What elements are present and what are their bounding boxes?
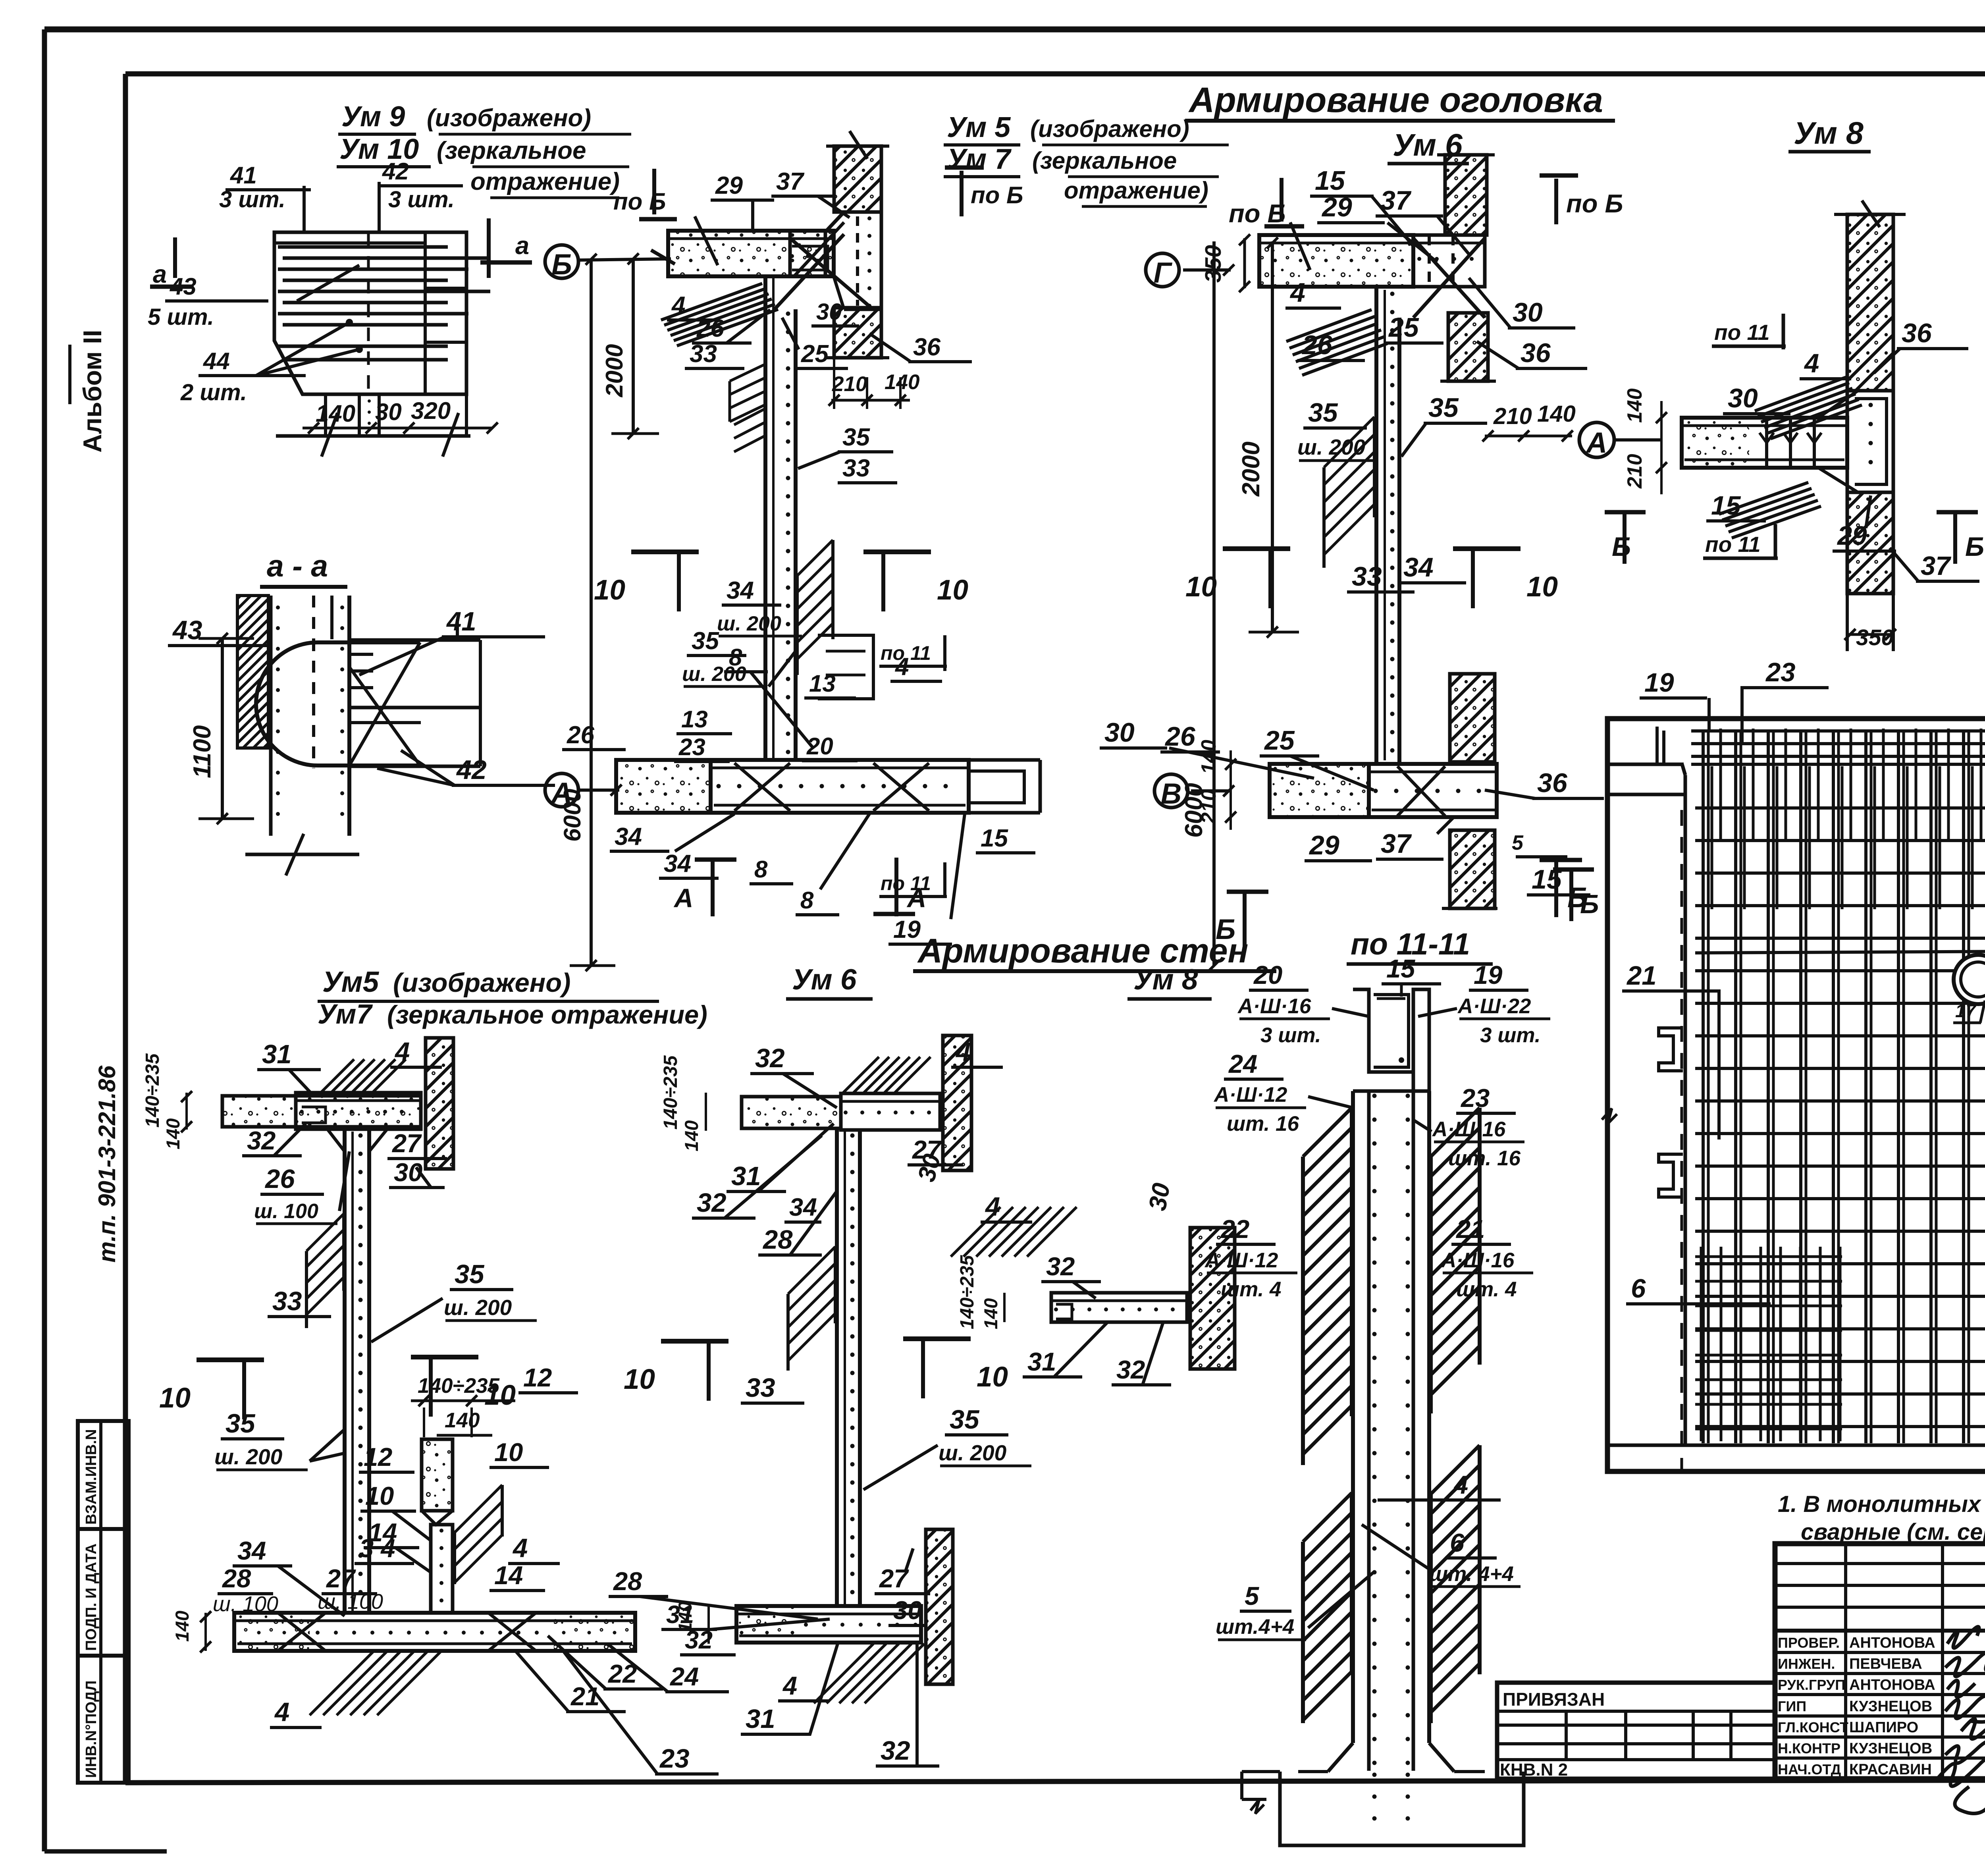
B hatched column below junction	[834, 308, 881, 358]
svg-text:4: 4	[274, 1697, 289, 1727]
privyazan block	[1497, 1683, 1775, 1779]
svg-text:37: 37	[1921, 551, 1951, 581]
axis circle A (B foot)	[545, 773, 578, 807]
svg-text:2000: 2000	[1237, 442, 1265, 497]
left margin stamp boxes	[78, 1421, 129, 1529]
po11-11 shaft	[1351, 1091, 1355, 1743]
svg-text:42: 42	[456, 755, 487, 785]
svg-text:10: 10	[594, 575, 625, 606]
svg-text:30: 30	[1104, 717, 1135, 748]
svg-text:37: 37	[1381, 829, 1412, 859]
svg-text:30: 30	[1144, 1181, 1176, 1213]
title block main outline	[1775, 1544, 1985, 1779]
svg-text:24: 24	[1228, 1049, 1257, 1078]
Um8 stub slab	[1682, 418, 1847, 468]
svg-text:4: 4	[782, 1671, 797, 1700]
svg-text:(изображено): (изображено)	[393, 968, 570, 998]
G foot slab	[1270, 764, 1369, 817]
svg-text:4: 4	[1804, 349, 1819, 378]
po11-11 top pocket	[1353, 989, 1429, 1091]
axis circle B	[545, 245, 578, 278]
svg-text:4: 4	[512, 1533, 528, 1563]
Um8 wall junction box	[1847, 391, 1893, 492]
po B mark right of B	[960, 171, 964, 216]
section marks 10 (G)	[1268, 549, 1272, 608]
svg-text:29: 29	[1321, 192, 1352, 222]
axis circle A (Um8)	[1579, 422, 1614, 457]
svg-text:140: 140	[172, 1611, 193, 1642]
svg-text:10: 10	[937, 575, 968, 606]
svg-text:Б: Б	[1965, 532, 1984, 562]
Um8 diag bundle 4	[1755, 377, 1846, 411]
svg-text:32: 32	[697, 1188, 727, 1218]
svg-text:ПРИВЯЗАН: ПРИВЯЗАН	[1503, 1689, 1605, 1710]
svg-text:210: 210	[1493, 403, 1532, 429]
svg-text:ИНВ.N°ПОДЛ: ИНВ.N°ПОДЛ	[83, 1681, 100, 1778]
svg-text:23: 23	[659, 1744, 690, 1774]
svg-text:22: 22	[1220, 1215, 1249, 1244]
svg-text:АНТОНОВА: АНТОНОВА	[1849, 1677, 1935, 1693]
svg-text:36: 36	[913, 334, 940, 361]
svg-text:140: 140	[162, 1118, 183, 1149]
svg-text:4: 4	[955, 1037, 971, 1067]
Um6 lower: slab top	[742, 1097, 841, 1128]
svg-text:26: 26	[567, 721, 594, 749]
svg-text:шт. 16: шт. 16	[1448, 1147, 1521, 1170]
svg-text:(зеркальное отражение): (зеркальное отражение)	[387, 1000, 707, 1029]
B hatch band 34	[797, 540, 833, 576]
svg-text:23: 23	[678, 734, 705, 760]
Um6 lower: hatched diag above slab	[842, 1057, 879, 1094]
svg-text:140÷235: 140÷235	[418, 1374, 500, 1398]
svg-text:ш. 200: ш. 200	[444, 1295, 512, 1320]
G hatched column above	[1445, 155, 1487, 235]
po11-11 footing	[1328, 1743, 1353, 1772]
svg-text:28: 28	[222, 1564, 251, 1593]
svg-text:3 4: 3 4	[359, 1534, 395, 1563]
svg-text:25: 25	[1388, 312, 1419, 343]
svg-text:А·Ш·16: А·Ш·16	[1432, 1118, 1506, 1141]
dim 6000 (G)	[1212, 241, 1216, 966]
svg-text:31: 31	[746, 1704, 775, 1734]
svg-text:3 шт.: 3 шт.	[388, 187, 455, 212]
svg-text:1. В монолитных участках Ум: 1. В монолитных участках Ум 9 и Ум 10 вс…	[1778, 1491, 1985, 1517]
section B marks (Um8)	[1623, 510, 1627, 564]
svg-text:5 шт.: 5 шт.	[148, 304, 214, 330]
svg-text:32: 32	[247, 1126, 276, 1155]
svg-text:19: 19	[893, 916, 921, 943]
svg-text:24: 24	[669, 1662, 699, 1691]
svg-text:ИНЖЕН.: ИНЖЕН.	[1778, 1656, 1835, 1672]
svg-text:А·Ш·16: А·Ш·16	[1440, 1249, 1515, 1272]
G X junction	[1413, 238, 1485, 318]
B X junction cross	[790, 238, 873, 310]
svg-text:по 11: по 11	[1705, 532, 1761, 557]
svg-text:отражение): отражение)	[470, 168, 620, 195]
svg-text:20: 20	[1253, 960, 1282, 989]
svg-text:15: 15	[1315, 166, 1345, 196]
svg-text:37: 37	[776, 168, 804, 195]
svg-text:Альбом II: Альбом II	[78, 330, 107, 453]
svg-text:по Б: по Б	[1566, 189, 1623, 218]
svg-text:13: 13	[681, 706, 708, 733]
svg-text:8: 8	[729, 644, 742, 671]
svg-text:Б: Б	[1612, 532, 1631, 562]
svg-text:Армирование стен: Армирование стен	[917, 932, 1249, 970]
svg-text:10: 10	[1185, 571, 1217, 603]
svg-text:10: 10	[977, 1361, 1008, 1393]
svg-text:АНТОНОВА: АНТОНОВА	[1849, 1635, 1935, 1651]
svg-text:21: 21	[1455, 1215, 1485, 1244]
svg-text:ГИП: ГИП	[1778, 1698, 1806, 1714]
Um6 lower: hatch band 33	[788, 1247, 835, 1294]
svg-text:Ум 9: Ум 9	[341, 101, 405, 133]
svg-text:5: 5	[1245, 1581, 1259, 1610]
svg-text:шт. 16: шт. 16	[1227, 1112, 1299, 1136]
svg-text:ш. 200: ш. 200	[214, 1444, 283, 1469]
svg-text:19: 19	[1644, 668, 1674, 698]
Um5 lower: wall stem	[343, 1130, 347, 1613]
svg-text:А: А	[673, 883, 693, 913]
svg-text:27: 27	[326, 1564, 356, 1593]
svg-text:по 11: по 11	[881, 642, 931, 664]
svg-text:31: 31	[731, 1161, 761, 1191]
svg-text:34: 34	[727, 577, 754, 604]
svg-text:ш. 200: ш. 200	[717, 612, 781, 635]
svg-text:4: 4	[394, 1037, 410, 1067]
svg-text:6: 6	[1450, 1528, 1465, 1557]
svg-text:10: 10	[624, 1364, 655, 1395]
svg-text:А: А	[551, 777, 572, 809]
svg-text:33: 33	[690, 340, 717, 368]
svg-text:140: 140	[1537, 401, 1576, 427]
svg-text:43: 43	[170, 273, 197, 300]
B junction box	[844, 212, 881, 309]
svg-text:отражение): отражение)	[1064, 177, 1208, 204]
svg-text:32: 32	[881, 1736, 910, 1766]
svg-text:А: А	[906, 883, 926, 913]
svg-text:34: 34	[615, 823, 642, 850]
dim 2000 (B)	[632, 259, 635, 434]
svg-text:35: 35	[842, 424, 870, 451]
Um5 lower: hatch band 33	[306, 1214, 344, 1251]
svg-text:140: 140	[885, 370, 919, 394]
svg-text:12: 12	[364, 1442, 392, 1471]
svg-text:А·Ш·16: А·Ш·16	[1237, 995, 1311, 1018]
svg-text:(зеркальное: (зеркальное	[1032, 147, 1177, 174]
svg-text:a - a: a - a	[267, 549, 328, 583]
axis circle V (G foot)	[1154, 774, 1188, 808]
svg-text:ПЕВЧЕВА: ПЕВЧЕВА	[1849, 1656, 1922, 1672]
svg-text:15: 15	[981, 825, 1008, 852]
G foot hatched column above	[1450, 674, 1495, 762]
svg-text:ш. 100: ш. 100	[213, 1592, 278, 1616]
svg-text:по Б: по Б	[613, 188, 666, 215]
svg-text:34: 34	[789, 1193, 817, 1221]
svg-text:15: 15	[1711, 491, 1741, 521]
section A marks below foot	[711, 858, 715, 916]
svg-text:Ум 8: Ум 8	[1133, 964, 1198, 996]
svg-text:26: 26	[264, 1164, 295, 1194]
svg-text:А: А	[1586, 427, 1607, 459]
svg-text:30: 30	[1728, 383, 1758, 413]
Um8 diag bundle lower	[1719, 482, 1808, 514]
Um8 lower: diag bundle 4	[951, 1207, 1000, 1257]
svg-text:6: 6	[1631, 1274, 1646, 1303]
A-A side brackets	[1659, 1028, 1683, 1071]
svg-text:Ум5: Ум5	[322, 966, 380, 998]
svg-text:Б: Б	[1580, 889, 1599, 919]
svg-text:35: 35	[1428, 393, 1459, 423]
svg-text:КРАСАВИН: КРАСАВИН	[1849, 1761, 1932, 1778]
section B marks at G foot	[1243, 890, 1247, 949]
svg-text:шт.4+4: шт.4+4	[1216, 1615, 1294, 1639]
svg-text:ШАПИРО: ШАПИРО	[1849, 1719, 1918, 1736]
G top slab	[1259, 235, 1413, 287]
Um5 lower: slab	[222, 1096, 421, 1127]
svg-text:Армирование оголовка: Армирование оголовка	[1188, 80, 1603, 120]
svg-text:23: 23	[1460, 1084, 1490, 1112]
svg-text:41: 41	[230, 162, 257, 189]
svg-text:сварные (см. серию 3.900-3 .: сварные (см. серию 3.900-3 . вып. 2182 .…	[1801, 1519, 1985, 1545]
svg-text:Н.КОНТР: Н.КОНТР	[1778, 1740, 1840, 1756]
G diagonal bundle 4	[1286, 310, 1372, 341]
title block left column block	[1775, 1562, 1985, 1565]
Um8 vertical wall lower hatched	[1847, 492, 1893, 594]
svg-text:33: 33	[746, 1373, 775, 1403]
svg-text:1100: 1100	[189, 725, 216, 778]
svg-text:140: 140	[1623, 388, 1646, 423]
svg-text:25: 25	[801, 340, 829, 368]
svg-text:Б: Б	[551, 249, 572, 281]
svg-text:35: 35	[692, 627, 719, 655]
svg-text:КУЗНЕЦОВ: КУЗНЕЦОВ	[1849, 1740, 1932, 1757]
svg-text:8: 8	[754, 856, 768, 883]
svg-text:33: 33	[272, 1286, 302, 1316]
svg-text:4: 4	[1289, 278, 1305, 308]
svg-text:Ум 7: Ум 7	[947, 143, 1012, 175]
svg-text:42: 42	[382, 158, 409, 185]
svg-text:А·Ш·12: А·Ш·12	[1204, 1249, 1278, 1272]
svg-text:Ум 6: Ум 6	[792, 964, 857, 996]
svg-text:31: 31	[1027, 1347, 1056, 1376]
B-B pointer at plan left	[1569, 868, 1573, 921]
svg-text:28: 28	[613, 1567, 642, 1596]
svg-text:по Б: по Б	[1229, 199, 1286, 228]
svg-text:12: 12	[523, 1363, 552, 1392]
svg-text:Ум 5: Ум 5	[947, 112, 1011, 143]
svg-text:140÷235: 140÷235	[142, 1053, 163, 1128]
axis circle G	[1146, 253, 1179, 287]
svg-text:ВЗАМ.ИНВ.N: ВЗАМ.ИНВ.N	[83, 1429, 100, 1525]
Um6 lower section marks 10	[707, 1341, 711, 1401]
svg-text:26: 26	[1301, 330, 1333, 360]
svg-text:5: 5	[1512, 831, 1524, 854]
G foot hatched column below	[1450, 830, 1495, 908]
svg-text:30: 30	[816, 299, 842, 325]
svg-text:А·Ш·22: А·Ш·22	[1457, 995, 1531, 1018]
svg-text:Ум 8: Ум 8	[1794, 115, 1864, 150]
svg-text:10: 10	[365, 1481, 394, 1510]
svg-text:Ум7: Ум7	[318, 999, 373, 1030]
svg-text:А·Ш·12: А·Ш·12	[1213, 1083, 1287, 1107]
B hatched column above	[834, 146, 881, 212]
svg-text:В: В	[1161, 778, 1182, 810]
svg-text:26: 26	[696, 315, 724, 342]
svg-text:шт. 4: шт. 4	[1221, 1278, 1281, 1301]
svg-text:(изображено): (изображено)	[1030, 116, 1189, 142]
svg-text:31: 31	[666, 1601, 694, 1629]
svg-text:23: 23	[1765, 657, 1796, 687]
svg-text:26: 26	[1164, 721, 1196, 752]
svg-text:3 шт.: 3 шт.	[1480, 1024, 1540, 1047]
svg-text:т.п. 901-3-221.86: т.п. 901-3-221.86	[94, 1065, 120, 1263]
svg-text:41: 41	[446, 607, 476, 636]
svg-text:31: 31	[262, 1039, 292, 1069]
svg-text:ш. 200: ш. 200	[939, 1440, 1007, 1465]
svg-text:30: 30	[375, 399, 402, 425]
G hatched column below junction	[1448, 313, 1488, 381]
svg-text:4: 4	[985, 1192, 1000, 1222]
svg-text:15: 15	[1386, 954, 1415, 983]
svg-text:29: 29	[1309, 830, 1339, 860]
A-A plan grid	[1702, 731, 1705, 1443]
svg-text:210: 210	[832, 372, 867, 396]
Um8 X + diagonals	[1818, 391, 1858, 418]
svg-text:33: 33	[842, 455, 870, 482]
svg-text:140: 140	[681, 1120, 702, 1151]
svg-text:10: 10	[1526, 571, 1558, 603]
svg-text:320: 320	[411, 397, 451, 424]
inner drawing frame	[125, 71, 1985, 77]
svg-text:210: 210	[1197, 789, 1220, 824]
svg-text:ПРОВЕР.: ПРОВЕР.	[1778, 1635, 1840, 1651]
svg-text:a: a	[153, 260, 167, 288]
svg-text:РУК.ГРУП: РУК.ГРУП	[1778, 1677, 1845, 1693]
svg-text:29: 29	[1837, 521, 1867, 551]
Um8 lower: precast wall right	[1190, 1228, 1235, 1369]
pipe circles 17/18	[1954, 955, 1985, 1004]
dim 6000 (B)	[590, 259, 593, 966]
svg-text:a: a	[515, 232, 529, 260]
Um6 lower: precast wall right	[943, 1035, 971, 1170]
svg-text:36: 36	[1902, 318, 1932, 348]
Um8 vertical wall upper hatched	[1847, 214, 1893, 391]
svg-text:36: 36	[1521, 338, 1551, 368]
Um5 foot slab	[234, 1613, 635, 1651]
svg-text:32: 32	[755, 1043, 785, 1073]
Um6 lower: wall stem	[835, 1130, 839, 1606]
dim 2000 (G)	[1271, 241, 1274, 632]
svg-text:29: 29	[715, 172, 743, 199]
svg-text:36: 36	[1537, 768, 1568, 798]
svg-text:37: 37	[1380, 185, 1412, 216]
Um6 foot: precast column right	[926, 1529, 953, 1684]
svg-text:43: 43	[172, 615, 202, 645]
G column stem	[1374, 287, 1378, 762]
B foot slab	[616, 760, 711, 813]
svg-text:210: 210	[1623, 454, 1646, 489]
svg-text:Г: Г	[1154, 257, 1173, 289]
Um8 lower: slab	[1051, 1293, 1187, 1322]
svg-text:2000: 2000	[601, 344, 628, 397]
svg-text:35: 35	[455, 1259, 485, 1289]
section marks 10 (B)	[677, 552, 681, 611]
B top slab	[668, 231, 834, 276]
svg-text:35: 35	[1308, 398, 1338, 428]
svg-text:34: 34	[1403, 552, 1434, 582]
svg-text:30: 30	[1513, 297, 1543, 328]
svg-text:32: 32	[1116, 1355, 1145, 1384]
svg-text:4: 4	[671, 292, 685, 319]
svg-text:30: 30	[893, 1596, 922, 1625]
svg-text:2 шт.: 2 шт.	[180, 380, 247, 405]
svg-text:ПОДП. И ДАТА: ПОДП. И ДАТА	[83, 1543, 100, 1651]
svg-text:32: 32	[685, 1626, 713, 1654]
svg-text:35: 35	[225, 1409, 256, 1438]
svg-text:(изображено): (изображено)	[427, 104, 591, 132]
svg-text:10: 10	[159, 1382, 191, 1414]
svg-text:25: 25	[1264, 725, 1295, 756]
svg-text:по Б: по Б	[971, 182, 1023, 208]
Um5 hatch band right of pier	[455, 1485, 502, 1533]
svg-text:140÷235: 140÷235	[660, 1055, 681, 1130]
svg-text:19: 19	[1474, 960, 1502, 989]
svg-text:35: 35	[950, 1405, 980, 1434]
small pocket above foot	[818, 635, 873, 699]
svg-text:КУЗНЕЦОВ: КУЗНЕЦОВ	[1849, 1698, 1932, 1715]
G hatch band 33	[1324, 417, 1374, 467]
Um6 foot slab	[736, 1606, 921, 1643]
svg-text:КНВ.N 2: КНВ.N 2	[1500, 1760, 1568, 1780]
svg-text:10: 10	[494, 1438, 523, 1467]
svg-text:ш. 200: ш. 200	[1297, 435, 1366, 459]
svg-text:140÷235: 140÷235	[957, 1255, 978, 1329]
svg-text:ГЛ.КОНСТ: ГЛ.КОНСТ	[1778, 1719, 1848, 1735]
svg-text:33: 33	[1352, 561, 1382, 592]
svg-text:8: 8	[800, 887, 814, 914]
svg-text:34: 34	[664, 850, 691, 877]
svg-text:32: 32	[1046, 1252, 1075, 1281]
svg-text:по 11: по 11	[1714, 320, 1770, 345]
svg-text:3 шт.: 3 шт.	[219, 187, 285, 212]
svg-text:14: 14	[494, 1561, 523, 1590]
svg-text:27: 27	[391, 1129, 422, 1158]
outer sheet border	[44, 27, 1985, 33]
svg-text:(зеркальное: (зеркальное	[437, 137, 586, 164]
B slab rebar channel	[790, 231, 834, 276]
Um5 lower: hatched block above slab	[318, 1059, 354, 1096]
svg-text:ш. 100: ш. 100	[254, 1200, 318, 1223]
svg-text:шт. 4+4: шт. 4+4	[1429, 1562, 1514, 1586]
po B mark right of G	[1554, 179, 1558, 224]
svg-text:НАЧ.ОТД: НАЧ.ОТД	[1778, 1761, 1841, 1778]
B 33 bundle left of stem	[730, 364, 765, 381]
svg-text:3 шт.: 3 шт.	[1260, 1024, 1321, 1047]
svg-text:140: 140	[445, 1409, 480, 1432]
svg-text:4: 4	[1453, 1470, 1468, 1499]
Um5 lower: precast wall right	[426, 1038, 453, 1169]
svg-text:34: 34	[237, 1536, 266, 1565]
svg-text:140: 140	[316, 400, 355, 427]
svg-text:28: 28	[762, 1225, 793, 1255]
Um5 small pier (hatched)	[422, 1439, 453, 1511]
svg-text:44: 44	[203, 348, 230, 374]
B diagonal bundle 4	[661, 283, 762, 320]
svg-text:17: 17	[1955, 1000, 1977, 1021]
B column stem	[763, 276, 767, 760]
svg-text:21: 21	[570, 1682, 599, 1711]
